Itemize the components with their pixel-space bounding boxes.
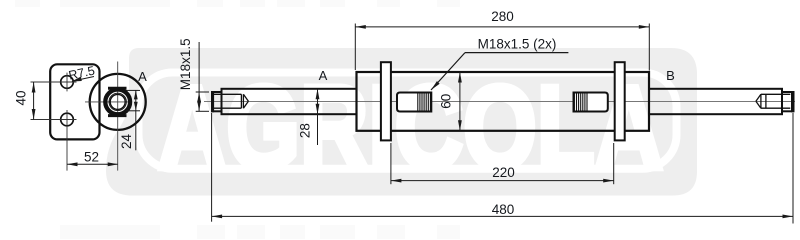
svg-text:52: 52 <box>84 150 99 165</box>
svg-text:28: 28 <box>298 123 313 138</box>
svg-text:M18x1.5 (2x): M18x1.5 (2x) <box>478 37 557 52</box>
svg-text:R7.5: R7.5 <box>67 63 96 82</box>
svg-text:280: 280 <box>491 9 514 24</box>
svg-text:60: 60 <box>439 94 454 109</box>
svg-text:M18x1.5: M18x1.5 <box>178 38 193 90</box>
svg-text:24: 24 <box>119 134 134 150</box>
svg-text:A: A <box>138 69 147 84</box>
svg-text:480: 480 <box>492 202 515 217</box>
svg-text:220: 220 <box>492 165 515 180</box>
svg-text:AGRICOLA: AGRICOLA <box>158 62 663 194</box>
svg-text:A: A <box>319 68 328 83</box>
svg-text:40: 40 <box>14 90 29 105</box>
svg-text:B: B <box>666 68 675 83</box>
